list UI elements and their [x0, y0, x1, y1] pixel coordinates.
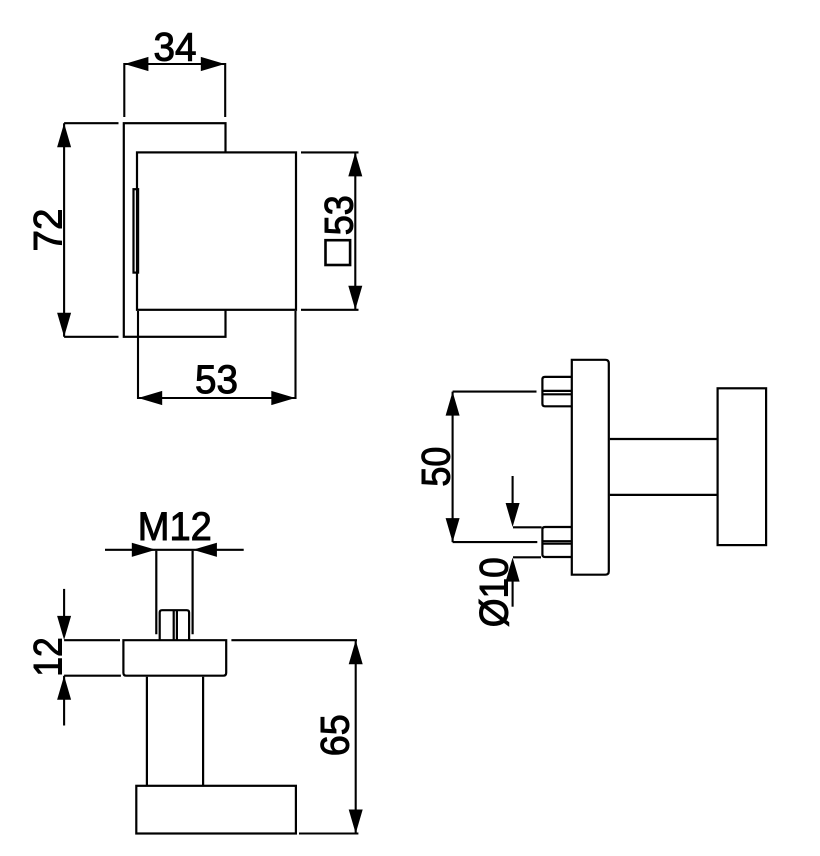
svg-text:53: 53: [195, 358, 238, 402]
svg-text:12: 12: [27, 637, 71, 677]
svg-text:53: 53: [317, 195, 361, 235]
svg-text:Ø10: Ø10: [472, 557, 516, 627]
dimension M12: [105, 505, 244, 557]
dimension diameter 10 (stud): [472, 476, 541, 627]
svg-text:M12: M12: [138, 505, 212, 549]
svg-text:65: 65: [314, 714, 358, 756]
dimension 53 (bottom width): [138, 311, 296, 405]
svg-text:72: 72: [27, 209, 71, 252]
bottom view: stem: [147, 677, 203, 786]
dimension 12 (plate thickness): [27, 589, 121, 726]
side view: knob: [718, 388, 767, 545]
dimension square-53 (right height): [301, 152, 362, 309]
svg-text:34: 34: [154, 26, 197, 70]
side view: stem: [610, 439, 718, 495]
side view: bottom stud: [542, 527, 572, 557]
front view: latch strip: [134, 189, 139, 272]
front view: back plate (narrow rect): [124, 123, 226, 337]
dimension 65 (overall height): [231, 640, 362, 833]
bottom view: thread shank lines: [156, 551, 192, 635]
dimension 72 (left height): [27, 123, 119, 337]
dimension 50 (stud spacing): [414, 392, 537, 542]
front view: square knob face 53x53: [137, 152, 296, 309]
bottom view: threaded stud tip: [160, 610, 189, 640]
bottom view: knob base: [136, 786, 296, 834]
side view: rose plate: [572, 360, 609, 575]
bottom view: rose plate: [123, 640, 226, 676]
side view: top stud: [542, 377, 572, 406]
svg-text:50: 50: [414, 447, 458, 487]
dimension 34 (top width): [124, 26, 225, 118]
